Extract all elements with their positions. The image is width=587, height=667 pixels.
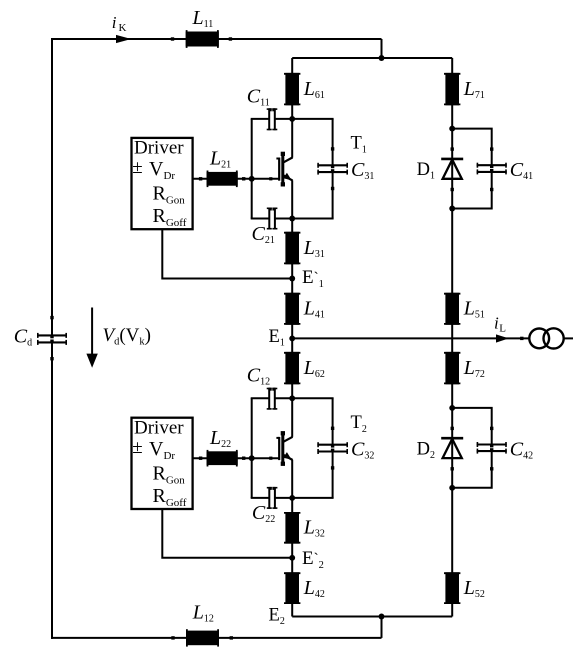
wire: driver U2 emitter return	[162, 509, 292, 558]
label E`2	[302, 548, 324, 571]
node: T2 emitter	[289, 495, 295, 501]
label L52	[463, 577, 485, 600]
svg-text:±: ±	[132, 157, 142, 178]
svg-text:Driver: Driver	[134, 138, 184, 159]
node E`2	[289, 555, 295, 561]
wire: gate rail of T2	[251, 398, 253, 498]
svg-text:E`1: E`1	[302, 267, 324, 290]
node: T1 collector	[289, 116, 295, 122]
wire: load wire from E1	[292, 337, 529, 340]
wire: gate drive output U2	[193, 457, 252, 460]
wire: top main wire	[51, 38, 382, 40]
svg-text:L31: L31	[303, 237, 325, 260]
svg-text:iK: iK	[112, 13, 127, 34]
capacitor C12	[267, 388, 278, 410]
driver box U1	[132, 138, 193, 229]
node: T1 gate	[249, 176, 255, 182]
svg-text:Driver: Driver	[134, 417, 184, 438]
label D2	[417, 439, 435, 461]
node: D1 anode	[449, 206, 455, 212]
wire: top bus between branches	[292, 57, 452, 59]
label T1	[351, 134, 367, 156]
svg-text:L62: L62	[303, 357, 325, 380]
label L72	[463, 357, 485, 380]
svg-text:L22: L22	[209, 427, 231, 450]
current arrow iK	[116, 35, 131, 43]
capacitor C21	[267, 208, 278, 230]
wire: gate lead of T1	[252, 177, 280, 180]
svg-text:D2: D2	[417, 439, 435, 461]
transistor T2 (IGBT)	[276, 431, 292, 466]
svg-text:L21: L21	[209, 148, 231, 171]
capacitor C31	[317, 163, 348, 175]
label L51	[463, 298, 485, 321]
inductor L12	[171, 629, 233, 646]
svg-text:Vd(Vk): Vd(Vk)	[103, 325, 152, 348]
label L61	[303, 78, 325, 101]
label L71	[463, 78, 485, 101]
svg-text:VDr: VDr	[149, 158, 175, 182]
capacitor C22	[267, 487, 278, 509]
label Vd(Vk)	[103, 325, 152, 348]
inductor L61	[284, 73, 300, 105]
wire: bottom main wire	[51, 637, 382, 639]
label L42	[303, 577, 325, 600]
label L12	[192, 601, 214, 624]
svg-text:RGon: RGon	[153, 462, 186, 486]
wire: bottom bus between branches	[292, 616, 452, 618]
driver box U2	[132, 418, 193, 509]
label L22	[209, 427, 231, 450]
svg-text:C22: C22	[252, 502, 275, 525]
svg-text:L52: L52	[463, 577, 485, 600]
inductor L32	[284, 512, 300, 544]
svg-text:C11: C11	[247, 85, 270, 108]
label iK	[112, 13, 127, 34]
wire: left DC rail (lower part)	[51, 342, 53, 639]
svg-text:E`2: E`2	[302, 548, 324, 571]
wire: gate drive output U1	[193, 177, 252, 180]
label C12	[247, 365, 270, 388]
svg-text:C32: C32	[351, 439, 374, 462]
node: T2 gate	[249, 455, 255, 461]
node E`1	[289, 276, 295, 282]
label L31	[303, 237, 325, 260]
label L62	[303, 357, 325, 380]
inductor L41	[284, 293, 300, 325]
node: D2 cathode	[449, 405, 455, 411]
label iL	[494, 314, 506, 335]
svg-text:RGoff: RGoff	[153, 485, 187, 509]
label C32	[351, 439, 374, 462]
svg-text:L42: L42	[303, 577, 325, 600]
voltage arrow Vd	[86, 308, 97, 368]
svg-text:VDr: VDr	[149, 438, 175, 462]
node: T2 collector	[289, 395, 295, 401]
wire: snubber branch of D2	[452, 408, 493, 488]
inductor L42	[284, 572, 300, 604]
driver text U1	[132, 138, 186, 230]
wire: emitter bottom wire of T2	[251, 497, 334, 499]
svg-text:±: ±	[132, 437, 142, 458]
wire: left DC rail (upper part)	[51, 38, 53, 335]
label L21	[209, 148, 231, 171]
label E`1	[302, 267, 324, 290]
node: D1 cathode	[449, 126, 455, 132]
label Cd	[14, 326, 32, 349]
capacitor C42	[477, 442, 507, 454]
transistor T1 (IGBT)	[276, 152, 292, 187]
inductor L52	[444, 572, 460, 604]
capacitor C41	[477, 163, 507, 175]
wire: T1 cell right rail	[331, 119, 334, 219]
capacitor C11	[267, 108, 278, 130]
label E1	[269, 327, 285, 349]
load source circles	[529, 328, 563, 348]
node E1	[289, 335, 295, 341]
label C42	[510, 438, 533, 461]
wire: collector top wire of T1	[251, 118, 334, 120]
wire: centre branch middle segment	[291, 180, 293, 437]
svg-text:C12: C12	[247, 365, 270, 388]
wire: gate lead of T2	[252, 457, 280, 460]
inductor L31	[284, 232, 300, 264]
svg-text:C21: C21	[252, 223, 275, 246]
svg-text:T2: T2	[351, 413, 367, 435]
svg-text:C42: C42	[510, 438, 533, 461]
label L41	[303, 298, 325, 321]
svg-text:C41: C41	[510, 159, 533, 182]
current arrow iL	[496, 334, 509, 342]
label C41	[510, 159, 533, 182]
label L11	[192, 7, 214, 30]
inductor L72	[444, 352, 460, 384]
label C11	[247, 85, 270, 108]
label L32	[303, 517, 325, 540]
svg-text:L32: L32	[303, 517, 325, 540]
svg-text:L11: L11	[192, 7, 214, 30]
wire: bottom drop segment	[381, 617, 383, 638]
svg-text:L72: L72	[463, 357, 485, 380]
svg-text:L12: L12	[192, 601, 214, 624]
svg-text:RGoff: RGoff	[153, 205, 187, 229]
wire: emitter bottom wire of T1	[251, 218, 334, 220]
svg-text:Cd: Cd	[14, 326, 32, 349]
inductor L51	[444, 293, 460, 325]
wire: snubber branch of D1	[452, 129, 493, 209]
wire: centre branch lower segment	[291, 460, 293, 617]
wire: top drop segment	[381, 39, 383, 58]
svg-text:L71: L71	[463, 78, 485, 101]
capacitor C32	[317, 442, 348, 454]
svg-text:L61: L61	[303, 78, 325, 101]
node: D2 anode	[449, 485, 455, 491]
node: bottom bus junction	[379, 614, 385, 620]
capacitor Cd	[37, 316, 67, 361]
driver text U2	[132, 417, 186, 509]
inductor L71	[444, 73, 460, 105]
wire: T2 cell right rail	[331, 398, 334, 498]
label C21	[252, 223, 275, 246]
svg-text:RGon: RGon	[153, 183, 186, 207]
label D1	[417, 160, 435, 182]
svg-text:iL: iL	[494, 314, 506, 335]
svg-text:E1: E1	[269, 327, 285, 349]
svg-text:D1: D1	[417, 160, 435, 182]
label T2	[351, 413, 367, 435]
wire: centre branch upper segment	[291, 58, 293, 158]
label C31	[351, 159, 374, 182]
label E2	[269, 605, 285, 627]
svg-text:C31: C31	[351, 159, 374, 182]
svg-text:T1: T1	[351, 134, 367, 156]
inductor L21	[207, 171, 238, 188]
inductor L22	[207, 450, 238, 467]
wire: driver U1 emitter return	[162, 229, 292, 278]
svg-text:L51: L51	[463, 298, 485, 321]
wire: gate rail of T1	[251, 119, 253, 219]
svg-text:E2: E2	[269, 605, 285, 627]
diode D2	[441, 427, 463, 471]
inductor L62	[284, 352, 300, 384]
diode D1	[441, 147, 463, 191]
svg-text:L41: L41	[303, 298, 325, 321]
inductor L11	[171, 30, 232, 48]
wire: collector top wire of T2	[251, 397, 334, 399]
node: top bus junction	[379, 55, 385, 61]
wire: load stub	[564, 337, 573, 339]
wire: right branch rail	[451, 58, 453, 617]
node: T1 emitter	[289, 216, 295, 222]
label C22	[252, 502, 275, 525]
